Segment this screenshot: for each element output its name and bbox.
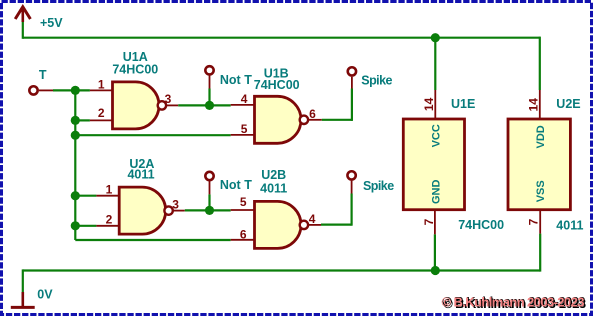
wire Not T upper drop (208, 89, 210, 106)
junction bottom rail / U1E (431, 266, 440, 275)
terminal circle Spike upper (348, 67, 356, 75)
U2B pin 5 (231, 209, 255, 211)
svg-text:0V: 0V (37, 288, 53, 302)
wire top +5V rail (23, 37, 540, 39)
svg-text:74HC00: 74HC00 (112, 63, 158, 77)
svg-text:74HC00: 74HC00 (458, 218, 504, 232)
svg-text:14: 14 (527, 98, 541, 112)
pin T terminal (39, 89, 53, 91)
wire U2A out to U2B pin5 (185, 209, 231, 211)
svg-text:4011: 4011 (556, 219, 583, 233)
nand gate U1A (113, 82, 159, 129)
junction Not T junction (205, 101, 214, 110)
wire bottom 0V rail (23, 269, 540, 271)
junction Not T lower junction (205, 206, 214, 215)
U1B pin 4 (231, 104, 255, 106)
U2B pin 6 (231, 239, 255, 241)
wire U2B pin6 wire (75, 239, 230, 241)
svg-text:U1E: U1E (451, 97, 475, 111)
nand gate U2A output bubble (164, 206, 172, 214)
+5V power symbol (21, 9, 24, 23)
wire Spike upper riser (351, 89, 353, 121)
wire U2E VSS down (539, 234, 541, 272)
wire U2E VDD feed (539, 37, 541, 90)
0V power symbol (21, 292, 24, 307)
wire T to U1A inputs (53, 89, 90, 91)
svg-text:Spike: Spike (363, 179, 394, 193)
Spike upper terminal pin (351, 77, 353, 89)
svg-text:U2E: U2E (556, 97, 580, 111)
Not T lower terminal pin (209, 181, 211, 194)
wire U2B out wire (321, 224, 352, 226)
U1A pin 3 output (166, 104, 179, 106)
wire Spike lower riser (351, 194, 353, 226)
svg-text:4: 4 (241, 92, 248, 106)
U2E pin 7 (539, 210, 541, 234)
junction pin2 tap (71, 116, 80, 125)
U1A pin 2 (90, 119, 113, 121)
U2E pin 14 (539, 90, 541, 120)
U2A pin 2 (96, 225, 119, 227)
wire U1A out to U1B pin4 (178, 104, 231, 106)
U2B pin 4 output (308, 224, 322, 226)
svg-text:4011: 4011 (260, 182, 287, 196)
nand gate U1B (255, 96, 301, 143)
svg-text:1: 1 (98, 78, 105, 92)
IC power block U2E (508, 119, 570, 210)
wire Not T lower drop (208, 194, 210, 210)
wire U2A pin1 wire (75, 195, 96, 197)
wire left vertical bus (74, 90, 76, 240)
U1E pin 7 (434, 210, 436, 235)
terminal circle Not T lower (205, 172, 213, 180)
svg-text:© B.Kuhlmann 2003-2023: © B.Kuhlmann 2003-2023 (442, 295, 585, 310)
svg-text:5: 5 (240, 195, 247, 209)
svg-text:Not T: Not T (220, 73, 252, 87)
wire U2A pin2 wire (75, 225, 96, 227)
svg-text:3: 3 (165, 92, 172, 106)
nand gate U1A output bubble (158, 101, 166, 109)
wire +5V drop (22, 22, 24, 39)
wire U1E GND down (434, 234, 436, 270)
wire 0V drop (22, 269, 24, 292)
svg-text:U2B: U2B (261, 168, 286, 182)
junction pin5 tap (71, 131, 80, 140)
nand gate U2A (119, 187, 166, 234)
U2A pin 3 output (172, 210, 185, 212)
svg-text:6: 6 (309, 107, 316, 121)
U1E pin 14 (434, 90, 436, 120)
wire U1A pin2 wire (75, 119, 90, 121)
Not T upper terminal pin (209, 76, 211, 89)
nand gate U2B (255, 201, 301, 248)
svg-text:VSS: VSS (535, 180, 547, 202)
IC power block U1E (403, 119, 464, 210)
junction U2A pin1 tap (71, 191, 80, 200)
svg-text:7: 7 (527, 218, 541, 225)
svg-text:3: 3 (172, 198, 179, 212)
terminal circle T (29, 86, 37, 94)
svg-text:5: 5 (241, 122, 248, 136)
svg-text:4: 4 (309, 212, 316, 226)
terminal circle Spike lower (347, 171, 355, 179)
svg-text:2: 2 (98, 106, 105, 120)
svg-text:1: 1 (106, 183, 113, 197)
svg-text:74HC00: 74HC00 (254, 78, 300, 92)
U2A pin 1 (96, 195, 119, 197)
U1B pin 5 (231, 134, 255, 136)
junction top rail / U1E (431, 33, 440, 42)
svg-text:Not T: Not T (220, 178, 252, 192)
svg-text:T: T (39, 68, 47, 82)
U1B pin 6 output (308, 119, 322, 121)
svg-text:VCC: VCC (430, 124, 442, 147)
svg-text:7: 7 (422, 218, 436, 225)
svg-text:+5V: +5V (40, 16, 63, 30)
nand gate U2B output bubble (300, 221, 308, 229)
wire U1B pin5 wire (75, 134, 230, 136)
svg-text:Spike: Spike (361, 74, 392, 88)
svg-text:2: 2 (106, 213, 113, 227)
junction U2A pin2 tap (71, 221, 80, 230)
wire U1E VCC feed (434, 38, 436, 90)
svg-text:6: 6 (240, 227, 247, 241)
svg-text:14: 14 (422, 97, 436, 111)
wire U1B out wire (322, 119, 352, 121)
svg-text:GND: GND (430, 180, 442, 205)
Spike lower terminal pin (351, 181, 353, 194)
svg-text:4011: 4011 (127, 168, 154, 182)
U1A pin 1 (90, 89, 113, 91)
svg-text:VDD: VDD (535, 125, 547, 148)
nand gate U1B output bubble (300, 116, 308, 124)
junction T junction (71, 86, 80, 95)
terminal circle Not T upper (205, 66, 213, 74)
